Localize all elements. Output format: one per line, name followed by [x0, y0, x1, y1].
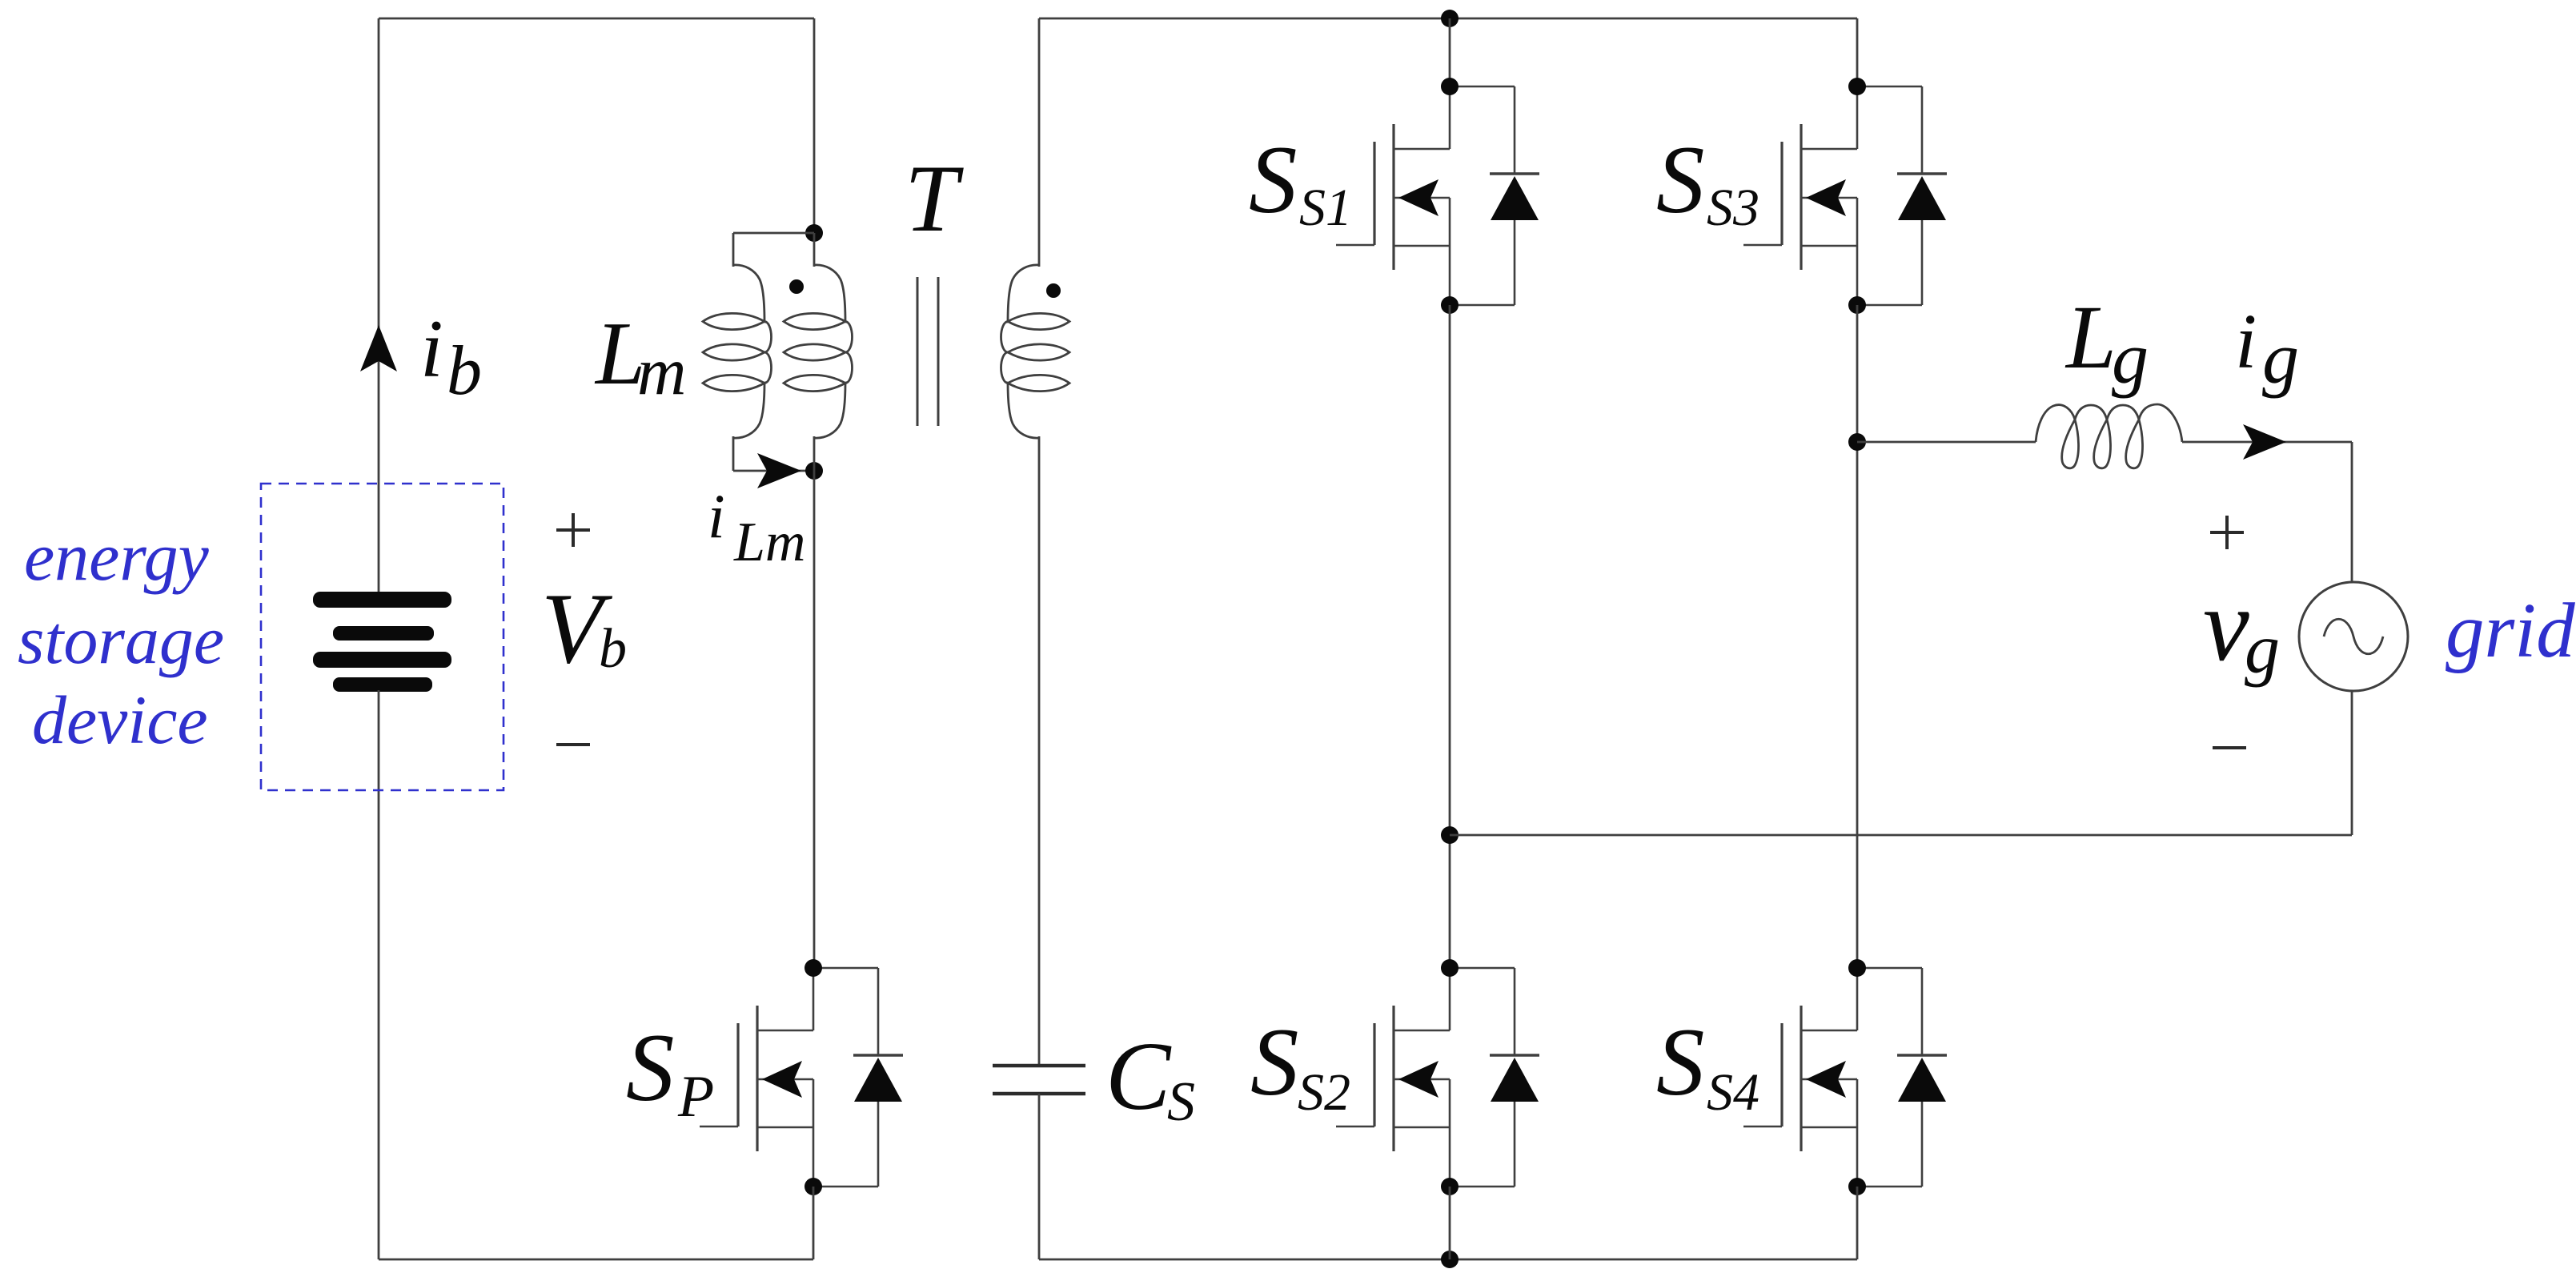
node (Lm / primary top junction) — [805, 224, 823, 242]
node (SS1 drain / top rail) — [1441, 10, 1459, 27]
wire grid branch lower — [2351, 691, 2353, 835]
svg-text:i: i — [2235, 299, 2257, 385]
svg-text:i: i — [420, 303, 443, 395]
capacitor CS — [993, 1066, 1085, 1094]
wire grid branch upper — [2351, 442, 2353, 582]
current arrow i_b — [360, 325, 397, 371]
AC source vg (grid) — [2299, 582, 2408, 691]
svg-text:S4: S4 — [1707, 1063, 1759, 1122]
svg-text:S: S — [626, 1014, 675, 1122]
current arrow i_Lm — [757, 453, 801, 488]
current arrow i_g — [2243, 424, 2286, 460]
wire bottom-right rail — [1039, 1259, 1857, 1261]
node (SS2 source / bottom rail) — [1441, 1251, 1459, 1268]
svg-text:g: g — [2262, 317, 2299, 399]
wire Lm branch bottom — [733, 470, 814, 472]
svg-text:b: b — [599, 618, 627, 680]
node (bridge right midpoint / Lg) — [1848, 433, 1866, 451]
dashed boundary box of energy storage device — [261, 484, 504, 790]
transformer T core — [917, 277, 938, 426]
transistor SS4 (MOSFET with body diode) — [1743, 959, 1947, 1195]
wire bridge right leg middle — [1856, 305, 1859, 968]
svg-text:P: P — [677, 1064, 714, 1130]
wire SS1 drain stub — [1449, 18, 1451, 86]
svg-text:S1: S1 — [1299, 179, 1352, 237]
wire SS2 source to bottom rail — [1449, 1187, 1451, 1259]
svg-text:energy: energy — [24, 518, 210, 595]
wire top-left rail — [379, 18, 814, 20]
wire Lm branch top — [733, 232, 814, 235]
wire SS3 drain stub — [1856, 18, 1859, 86]
transistor SS2 (MOSFET with body diode) — [1336, 959, 1539, 1195]
transistor SS1 (MOSFET with body diode) — [1336, 78, 1539, 314]
wire SS4 source to bottom rail — [1856, 1187, 1859, 1259]
battery B (energy storage device) — [313, 592, 451, 692]
svg-text:S2: S2 — [1298, 1063, 1350, 1122]
transistor SP (MOSFET with body diode) — [700, 959, 903, 1195]
wire bridge left leg middle — [1449, 305, 1451, 968]
svg-text:T: T — [905, 145, 964, 251]
svg-text:i: i — [708, 481, 725, 551]
transformer T primary winding — [813, 233, 816, 267]
wire primary leg top — [813, 18, 816, 233]
svg-text:m: m — [637, 334, 686, 409]
svg-text:b: b — [447, 332, 482, 410]
wire top-right rail — [1039, 18, 1857, 20]
wire secondary leg lower — [1038, 1094, 1041, 1259]
polarity dot (secondary) — [1046, 283, 1061, 298]
wire primary leg middle — [813, 471, 816, 968]
svg-text:S: S — [1656, 1009, 1705, 1116]
svg-text:L: L — [2064, 287, 2117, 388]
svg-text:Lm: Lm — [733, 512, 805, 573]
label - (battery polarity) — [556, 743, 590, 746]
wire left vertical (battery branch, upper) — [378, 18, 380, 593]
svg-text:S: S — [1167, 1071, 1195, 1133]
wire mid rail (grid return) — [1450, 834, 2352, 837]
label - (grid polarity) — [2213, 746, 2246, 749]
wire Lg node to coil — [1857, 441, 2036, 444]
svg-text:S: S — [1656, 126, 1705, 234]
wire SP source to bottom rail — [813, 1187, 815, 1259]
svg-text:v: v — [2203, 568, 2249, 683]
svg-text:C: C — [1105, 1022, 1172, 1130]
svg-text:g: g — [2112, 317, 2149, 399]
label energy storage device — [18, 518, 224, 758]
inductor Lm (magnetizing inductance) — [732, 233, 735, 267]
wire bottom-left rail — [379, 1259, 813, 1261]
svg-text:grid: grid — [2446, 588, 2575, 673]
svg-text:S3: S3 — [1707, 179, 1759, 237]
polarity dot (primary) — [789, 279, 804, 294]
label + (grid polarity) — [2210, 516, 2244, 549]
svg-text:storage: storage — [18, 601, 224, 678]
svg-text:device: device — [32, 681, 208, 758]
wire left vertical (battery branch, lower) — [378, 690, 380, 1259]
transformer T secondary winding — [1038, 18, 1041, 267]
wire Lg to grid corner — [2182, 441, 2352, 444]
label + (battery polarity) — [556, 513, 590, 547]
inductor Lg — [2036, 404, 2182, 468]
node (bridge left midpoint / grid return) — [1441, 826, 1459, 844]
svg-text:g: g — [2245, 611, 2280, 689]
transistor SS3 (MOSFET with body diode) — [1743, 78, 1947, 314]
svg-text:S: S — [1249, 126, 1298, 234]
svg-text:S: S — [1250, 1009, 1299, 1116]
node (Lm / primary bottom junction) — [805, 462, 823, 480]
